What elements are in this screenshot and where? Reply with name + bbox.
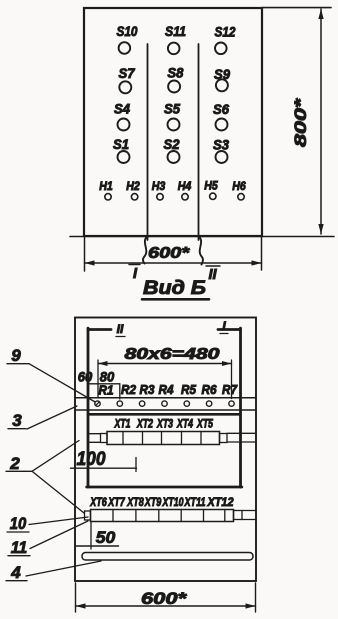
svg-text:4: 4 xyxy=(10,563,21,582)
callout 10 xyxy=(7,514,88,533)
svg-text:3: 3 xyxy=(12,411,22,430)
lamp H3 xyxy=(152,179,166,200)
resistor R6 xyxy=(202,383,218,397)
svg-text:XT3: XT3 xyxy=(156,419,173,431)
svg-text:XT1: XT1 xyxy=(114,419,131,431)
svg-text:2: 2 xyxy=(9,454,20,473)
svg-text:XT4: XT4 xyxy=(176,419,193,431)
switch S3 xyxy=(213,137,229,164)
svg-text:H1: H1 xyxy=(99,179,113,193)
resistor R1 xyxy=(99,384,114,398)
dimension 80 xyxy=(88,370,120,400)
node I (section mark, bottom figure) xyxy=(220,319,228,334)
svg-text:I: I xyxy=(133,266,138,282)
callout 9 xyxy=(7,346,95,402)
svg-text:S11: S11 xyxy=(165,23,186,39)
svg-text:S5: S5 xyxy=(164,101,180,117)
section cutting line I (vertical) xyxy=(143,44,148,264)
svg-text:S6: S6 xyxy=(213,101,229,117)
terminal XT12 label xyxy=(207,497,235,509)
svg-text:100: 100 xyxy=(77,449,106,470)
dimension 600* (under top panel) xyxy=(85,236,262,271)
svg-text:H5: H5 xyxy=(204,179,218,193)
svg-text:80: 80 xyxy=(100,370,115,385)
node I (section mark, top figure) xyxy=(129,265,140,283)
svg-text:60: 60 xyxy=(78,370,93,385)
dimension 50 xyxy=(76,522,119,550)
svg-text:S1: S1 xyxy=(113,136,129,152)
svg-text:80x6=480: 80x6=480 xyxy=(125,346,221,363)
svg-text:H3: H3 xyxy=(152,179,166,193)
section bracket (thick inner outline) xyxy=(87,328,242,487)
svg-text:II: II xyxy=(117,322,124,336)
wire right connectors from XT5 block xyxy=(227,433,256,442)
svg-text:50: 50 xyxy=(96,528,116,547)
svg-text:R1: R1 xyxy=(99,384,114,398)
terminal XT9 label xyxy=(144,497,162,509)
lamp H2 xyxy=(126,179,140,200)
lamp H5 xyxy=(204,179,218,200)
svg-text:R4: R4 xyxy=(159,383,174,397)
wire rail bottom line xyxy=(75,409,256,411)
svg-text:XT8: XT8 xyxy=(126,497,144,509)
svg-text:S2: S2 xyxy=(164,136,180,152)
terminal XT1 label xyxy=(114,419,131,431)
switch S4 xyxy=(114,101,130,131)
resistor terminal circles R1..R7 xyxy=(95,401,234,406)
svg-text:H6: H6 xyxy=(232,179,246,193)
svg-text:II: II xyxy=(208,267,217,283)
panel outline (bottom figure) xyxy=(75,318,256,582)
terminal XT8 label xyxy=(126,497,144,509)
dimension 600* (bottom) xyxy=(76,583,256,612)
svg-text:600*: 600* xyxy=(141,589,188,608)
wire right connectors from XT12 block xyxy=(242,511,256,520)
panel outline (top figure) xyxy=(84,8,262,236)
svg-text:XT7: XT7 xyxy=(107,497,125,509)
svg-text:H2: H2 xyxy=(126,179,140,193)
terminal XT3 label xyxy=(156,419,173,431)
svg-text:XT11: XT11 xyxy=(184,497,206,509)
callout 3 xyxy=(8,406,77,430)
terminal XT4 label xyxy=(176,419,193,431)
svg-text:S7: S7 xyxy=(119,65,136,81)
switch S2 xyxy=(164,136,180,163)
callout 11 xyxy=(8,521,88,557)
wire bottom extension line xyxy=(70,236,334,238)
wire shelf thick line xyxy=(88,413,241,416)
switch S10 xyxy=(117,23,138,54)
switch S6 xyxy=(213,101,229,131)
svg-text:S4: S4 xyxy=(114,101,130,117)
svg-text:S8: S8 xyxy=(167,65,183,81)
svg-text:XT2: XT2 xyxy=(136,419,153,431)
switch S7 xyxy=(119,65,136,93)
lamp H6 xyxy=(232,179,246,200)
svg-text:XT10: XT10 xyxy=(162,497,184,509)
dimension 60 xyxy=(78,370,93,385)
terminal block XT1-XT5 xyxy=(101,432,228,445)
switch S12 xyxy=(215,24,236,55)
resistor R7 xyxy=(222,383,238,397)
resistor R2 xyxy=(121,383,136,397)
svg-text:11: 11 xyxy=(11,538,28,557)
svg-text:R6: R6 xyxy=(202,383,218,397)
svg-text:800*: 800* xyxy=(291,97,310,147)
terminal XT11 label xyxy=(184,497,206,509)
svg-text:9: 9 xyxy=(11,346,21,365)
mounting rail (thin bar) xyxy=(82,553,253,561)
svg-text:S12: S12 xyxy=(215,24,236,40)
terminal XT2 label xyxy=(136,419,153,431)
svg-text:XT12: XT12 xyxy=(207,497,235,509)
node II (section mark, bottom figure) xyxy=(116,322,125,337)
switch S11 xyxy=(165,23,186,54)
svg-text:R3: R3 xyxy=(140,383,155,397)
svg-text:XT9: XT9 xyxy=(144,497,162,509)
switch S9 xyxy=(214,66,230,91)
dimension 800* (right vertical) xyxy=(291,9,324,234)
terminal block XT6-XT12 xyxy=(85,510,243,522)
svg-text:XT6: XT6 xyxy=(89,497,107,509)
svg-text:600*: 600* xyxy=(148,245,190,262)
switch S5 xyxy=(164,101,180,131)
svg-text:10: 10 xyxy=(10,514,27,533)
lamp H1 xyxy=(99,179,113,200)
dimension 80x6=480 xyxy=(98,346,232,399)
terminal XT10 label xyxy=(162,497,184,509)
svg-text:R2: R2 xyxy=(121,383,136,397)
svg-text:XT5: XT5 xyxy=(196,419,213,431)
callout 4 xyxy=(6,561,101,582)
wire left connectors to XT1 block xyxy=(88,434,101,443)
node II (section mark, top figure) xyxy=(206,266,220,283)
callout 2 xyxy=(6,441,84,514)
resistor R4 xyxy=(159,383,174,397)
terminal XT7 label xyxy=(107,497,125,509)
svg-text:R5: R5 xyxy=(181,383,197,397)
section cutting line II (vertical) xyxy=(199,44,204,265)
wire top extension line for 800 dim xyxy=(262,7,331,9)
svg-text:S10: S10 xyxy=(117,23,138,39)
switch S1 xyxy=(113,136,130,163)
svg-text:H4: H4 xyxy=(178,179,192,193)
resistor R3 xyxy=(140,383,155,397)
switch S8 xyxy=(167,65,183,93)
terminal XT5 label xyxy=(196,419,213,431)
terminal XT6 label xyxy=(89,497,107,509)
resistor R5 xyxy=(181,383,197,397)
dimension 100 xyxy=(71,449,137,472)
svg-text:Вид Б: Вид Б xyxy=(143,278,206,299)
wire rail top line xyxy=(75,397,256,399)
lamp H4 xyxy=(178,179,192,200)
svg-text:R7: R7 xyxy=(222,383,238,397)
view label Вид Б xyxy=(142,278,209,299)
